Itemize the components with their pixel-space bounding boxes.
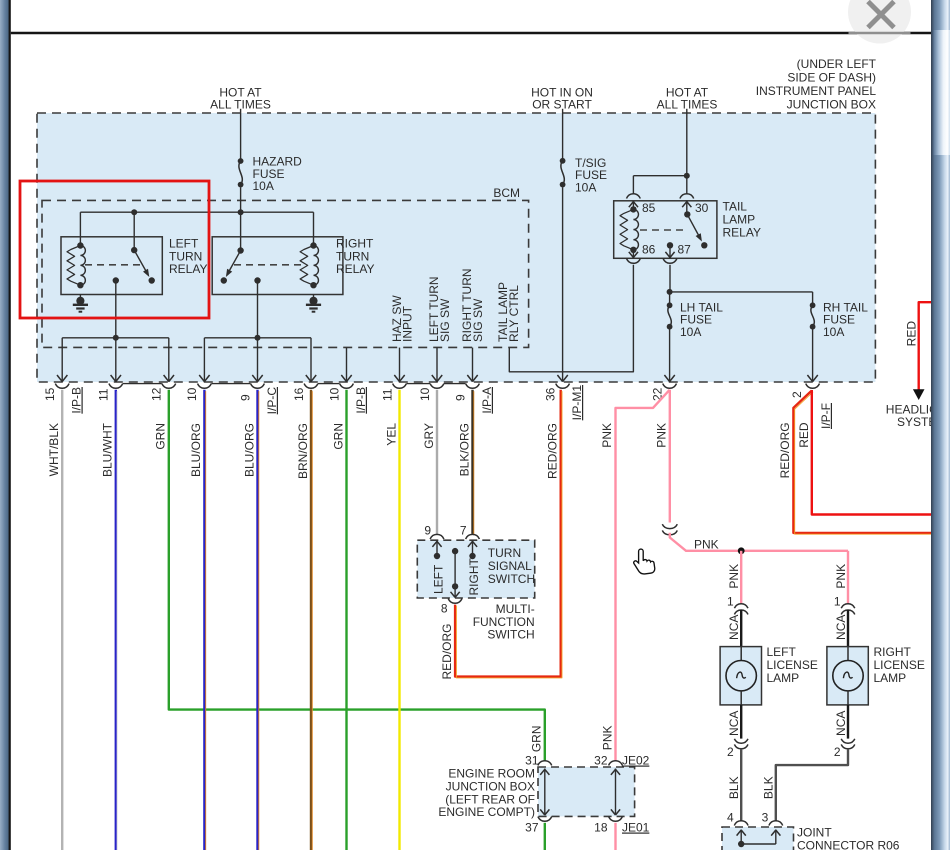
connector pin1 left lamp bbox=[734, 604, 748, 615]
svg-text:BLU/ORG: BLU/ORG bbox=[189, 423, 203, 477]
label 18 bbox=[594, 821, 608, 835]
mouse hand cursor bbox=[634, 549, 655, 574]
wire NCA left lamp pin2 bbox=[740, 705, 742, 739]
label NCA lower right (rotated) bbox=[834, 711, 848, 736]
svg-text:PNK: PNK bbox=[834, 564, 848, 589]
wire GRN pin10 bbox=[345, 390, 347, 850]
label I/P-F (pin2) bbox=[819, 403, 833, 429]
svg-text:NCA: NCA bbox=[727, 615, 741, 640]
wire LH fuse to pin22 bbox=[664, 330, 674, 382]
label I/P-M1 (pin36) bbox=[570, 385, 584, 421]
label 85 bbox=[642, 201, 656, 215]
svg-text:SIGNAL: SIGNAL bbox=[488, 559, 532, 573]
svg-text:RELAY: RELAY bbox=[723, 225, 761, 239]
relay K1 mechanical link (dashed) bbox=[85, 264, 141, 266]
svg-text:TAIL: TAIL bbox=[723, 199, 748, 213]
JOINT CONNECTOR R06 dashed box bbox=[722, 827, 794, 850]
svg-text:SWITCH: SWITCH bbox=[487, 628, 534, 642]
label 9 bbox=[424, 523, 431, 537]
wire tsig feed bbox=[562, 109, 564, 159]
svg-text:87: 87 bbox=[678, 243, 692, 257]
svg-text:PNK: PNK bbox=[694, 538, 719, 552]
relay K2 RIGHT TURN RELAY box bbox=[212, 237, 343, 295]
svg-text:9: 9 bbox=[424, 523, 431, 537]
svg-text:9: 9 bbox=[453, 394, 467, 401]
svg-text:1: 1 bbox=[834, 594, 841, 608]
svg-text:RED/ORG: RED/ORG bbox=[440, 624, 454, 680]
wire BLK right lamp to joint pin3 bbox=[776, 749, 848, 821]
svg-text:3: 3 bbox=[762, 811, 769, 825]
wire right output bus bbox=[204, 337, 311, 339]
wire tail feed bar bbox=[633, 175, 686, 177]
label TURN SIGNAL SWITCH bbox=[488, 546, 535, 586]
TSS pin9 arrow bbox=[432, 541, 441, 560]
JE pin31-37 through wire bbox=[540, 769, 549, 816]
label LH TAIL FUSE 10A bbox=[680, 300, 723, 339]
connector cup JE01 pin18 bbox=[609, 817, 623, 822]
label LEFT TURN SIG SW (rotated) bbox=[427, 276, 452, 342]
label RED (rotated) bbox=[797, 422, 811, 448]
label 86 bbox=[642, 243, 656, 257]
connector cap JE02 pin31 bbox=[538, 761, 552, 766]
relay K1 switch arm bbox=[131, 247, 155, 284]
label RED (headlight, rotated) bbox=[904, 321, 918, 347]
close button circle bbox=[848, 0, 911, 44]
TSS pin7 arrow bbox=[468, 541, 477, 560]
svg-text:BLU/ORG: BLU/ORG bbox=[242, 423, 256, 477]
label PNK pin1 right (rotated) bbox=[834, 564, 848, 589]
svg-text:PNK: PNK bbox=[600, 726, 614, 751]
wire bus drop pin15 bbox=[57, 338, 67, 382]
wire PNK pin22 branch to JE02 pin32 bbox=[616, 390, 670, 761]
wire PNK to lamp junction bbox=[670, 533, 848, 551]
svg-text:SWITCH: SWITCH bbox=[488, 572, 535, 586]
label BLK right (rotated) bbox=[762, 776, 776, 799]
connector pin2 right lamp bbox=[841, 739, 855, 749]
svg-text:12: 12 bbox=[150, 387, 164, 401]
wire bus drop pin11 bbox=[111, 338, 121, 382]
wire BLU/ORG pin9 bbox=[258, 390, 259, 850]
relay K2 coil bbox=[300, 242, 318, 288]
svg-text:RED/ORG: RED/ORG bbox=[778, 422, 792, 478]
inline connector on PNK wire bbox=[662, 524, 677, 535]
label T/SIG FUSE 10A bbox=[575, 156, 607, 195]
svg-text:RIGHT: RIGHT bbox=[874, 645, 912, 659]
relay K2 mechanical link (dashed) bbox=[234, 264, 306, 266]
right scrollbar thumb bbox=[934, 30, 950, 155]
label JE02 bbox=[622, 754, 650, 768]
lamp RIGHT bulb symbol bbox=[833, 647, 863, 705]
svg-text:JOINT: JOINT bbox=[797, 826, 832, 840]
svg-text:18: 18 bbox=[594, 821, 608, 835]
label 7 bbox=[460, 523, 467, 537]
label PNK (rotated) bbox=[655, 423, 669, 448]
svg-text:2: 2 bbox=[727, 745, 734, 759]
label LEFT TURN RELAY bbox=[169, 236, 207, 276]
wire relay supply bus bbox=[80, 211, 313, 213]
label RED/ORG (rotated) bbox=[778, 422, 792, 478]
svg-text:SIG SW: SIG SW bbox=[438, 298, 452, 342]
wire bus drop pin16 bbox=[306, 338, 316, 382]
wire bus drop pin9 bbox=[252, 338, 262, 382]
label I/P-A (pin9 blkorg) bbox=[480, 387, 494, 414]
wire WHT/BLK pin15 bbox=[61, 390, 63, 850]
label LEFT LICENSE LAMP bbox=[767, 645, 818, 685]
label GRN (rotated, JE02) bbox=[530, 726, 544, 753]
switch S1 TURN SIGNAL SWITCH box bbox=[417, 540, 534, 598]
BCM dashed box bbox=[42, 200, 529, 347]
svg-text:LICENSE: LICENSE bbox=[874, 658, 925, 672]
node bus-left-switch junction bbox=[131, 209, 137, 215]
wire NCA right lamp pin1 bbox=[847, 610, 849, 647]
label 37 bbox=[525, 821, 539, 835]
ENGINE ROOM JUNCTION BOX dashed box bbox=[538, 767, 635, 816]
svg-text:RELAY: RELAY bbox=[169, 262, 207, 276]
relay K2 switch arm bbox=[221, 247, 244, 283]
label 30 bbox=[695, 201, 709, 215]
right scrollbar gradient strip bbox=[931, 0, 950, 850]
relay K1 coil bbox=[67, 242, 85, 288]
svg-text:PNK: PNK bbox=[600, 423, 614, 448]
svg-text:30: 30 bbox=[695, 201, 709, 215]
label I/P-B (pin15) bbox=[70, 387, 84, 414]
svg-text:I/P-F: I/P-F bbox=[819, 403, 833, 429]
wire bus to right relay coil bbox=[313, 212, 315, 245]
svg-text:RELAY: RELAY bbox=[336, 262, 374, 276]
label PNK pin1 left (rotated) bbox=[727, 564, 741, 589]
wire RED/ORG from pin2 bbox=[793, 391, 932, 535]
fuse T/SIG FUSE 10A bbox=[560, 158, 566, 188]
svg-text:INSTRUMENT PANEL: INSTRUMENT PANEL bbox=[756, 84, 877, 98]
svg-text:WHT/BLK: WHT/BLK bbox=[47, 423, 61, 476]
wire bus drop pin12 bbox=[164, 338, 174, 382]
label GRN (rotated) bbox=[331, 423, 345, 450]
connector pin2 left lamp bbox=[734, 739, 748, 749]
svg-text:LAMP: LAMP bbox=[874, 671, 907, 685]
wire K1 common down bbox=[115, 281, 117, 338]
node bus-hazard junction bbox=[238, 209, 244, 215]
svg-text:LICENSE: LICENSE bbox=[767, 658, 818, 672]
svg-text:TURN: TURN bbox=[336, 249, 369, 263]
wire NCA right lamp pin2 bbox=[847, 705, 849, 739]
svg-text:31: 31 bbox=[525, 754, 539, 768]
svg-text:2: 2 bbox=[790, 391, 804, 398]
svg-text:RLY CTRL: RLY CTRL bbox=[507, 285, 521, 342]
label GRY (rotated) bbox=[422, 423, 436, 449]
svg-text:11: 11 bbox=[380, 388, 394, 401]
label JE01 bbox=[622, 821, 650, 835]
label NCA upper left (rotated) bbox=[727, 615, 741, 640]
wire RED/ORG pin36 to TSS pin8 bbox=[455, 390, 562, 678]
label I/P-B (pin10 grn) bbox=[354, 387, 368, 414]
svg-text:NCA: NCA bbox=[834, 615, 848, 640]
close button X bbox=[868, 2, 894, 28]
left window gradient strip bbox=[0, 0, 9, 850]
label PNK (horizontal) bbox=[694, 538, 719, 552]
svg-text:36: 36 bbox=[543, 387, 557, 401]
label BCM bbox=[493, 186, 520, 200]
wire BRN/ORG pin16 bbox=[311, 390, 312, 850]
svg-text:ENGINE ROOM: ENGINE ROOM bbox=[448, 767, 535, 781]
TSS common lever bbox=[451, 548, 460, 598]
svg-text:LAMP: LAMP bbox=[723, 212, 756, 226]
connector pin1 right lamp bbox=[841, 604, 855, 615]
label MULTI-FUNCTION SWITCH bbox=[473, 602, 535, 642]
connector cap joint pin3 bbox=[769, 821, 783, 826]
wire NCA left lamp pin1 bbox=[740, 610, 742, 647]
svg-text:NCA: NCA bbox=[834, 711, 848, 736]
label HEADLIGHT SYSTEM bbox=[886, 403, 950, 429]
svg-text:10A: 10A bbox=[680, 325, 701, 339]
wire PNK to right lamp pin1 bbox=[847, 551, 849, 604]
wire BCM pin10 GRN drop bbox=[341, 348, 351, 382]
label RH TAIL FUSE 10A bbox=[823, 300, 868, 339]
svg-text:JE01: JE01 bbox=[622, 821, 650, 835]
svg-text:GRN: GRN bbox=[154, 423, 168, 450]
label LEFT (rotated) bbox=[432, 564, 446, 594]
ground for K1 coil bbox=[73, 295, 88, 312]
svg-text:SIDE OF DASH): SIDE OF DASH) bbox=[787, 71, 876, 85]
connector cap JE02 pin32 bbox=[609, 761, 623, 766]
svg-text:RED/ORG: RED/ORG bbox=[546, 423, 560, 479]
svg-text:10: 10 bbox=[327, 387, 341, 401]
svg-text:I/P-C: I/P-C bbox=[265, 387, 279, 415]
label NCA upper right (rotated) bbox=[834, 615, 848, 640]
wire GRN JE01 pin37 down bbox=[544, 823, 546, 850]
wire PNK JE01 pin18 down bbox=[614, 823, 616, 850]
wire bar to pin30 bbox=[686, 176, 688, 194]
wire bus to left relay coil bbox=[79, 212, 81, 245]
label 4 bbox=[727, 811, 734, 825]
connector cap TSS pin7 bbox=[466, 534, 480, 539]
svg-text:32: 32 bbox=[594, 754, 608, 768]
wire BLK left lamp to joint pin4 bbox=[740, 749, 742, 821]
wire BLK/ORG pin9 to TSS pin7 bbox=[473, 390, 474, 535]
pin86 arrow bbox=[629, 250, 638, 258]
svg-text:10: 10 bbox=[185, 387, 199, 401]
label PNK (rotated, JE02) bbox=[600, 726, 614, 751]
connector cup JE01 pin37 bbox=[538, 817, 552, 822]
svg-text:GRN: GRN bbox=[331, 423, 345, 450]
svg-text:8: 8 bbox=[441, 601, 448, 615]
svg-text:NCA: NCA bbox=[727, 711, 741, 736]
wire to RH fuse bbox=[812, 292, 814, 303]
relay K3 TAIL LAMP RELAY box bbox=[614, 201, 717, 258]
label (UNDER LEFT SIDE OF DASH) INSTRUMENT PANEL JUNCTION BOX bbox=[756, 57, 877, 112]
label 1 (right lamp) bbox=[834, 594, 841, 608]
wire pin87 down bbox=[669, 265, 671, 292]
svg-text:10: 10 bbox=[418, 387, 432, 401]
joint internal bus bbox=[737, 830, 781, 848]
svg-text:86: 86 bbox=[642, 243, 656, 257]
svg-text:YEL: YEL bbox=[384, 423, 398, 446]
svg-text:11: 11 bbox=[97, 388, 111, 401]
svg-text:INPUT: INPUT bbox=[400, 305, 414, 342]
connector cap TSS pin9 bbox=[430, 534, 444, 539]
node right bus junction bbox=[255, 335, 261, 341]
wire bus to right relay switch bbox=[240, 212, 242, 250]
svg-text:I/P-B: I/P-B bbox=[354, 387, 368, 414]
svg-text:1: 1 bbox=[727, 594, 734, 608]
label RIGHT TURN SIG SW (rotated) bbox=[460, 268, 485, 342]
label WHT/BLK (rotated) bbox=[47, 423, 61, 476]
relay K3 coil bbox=[620, 206, 638, 253]
label RIGHT TURN RELAY bbox=[336, 236, 374, 276]
label 1 (left lamp) bbox=[727, 594, 734, 608]
label TAIL LAMP RLY CTRL (rotated) bbox=[496, 282, 521, 342]
label 2 (right lamp) bbox=[834, 745, 841, 759]
svg-text:PNK: PNK bbox=[727, 564, 741, 589]
connector cup TSS pin8 bbox=[448, 599, 462, 604]
relay K1 LEFT TURN RELAY box bbox=[61, 237, 162, 295]
label 2 (left lamp) bbox=[727, 745, 734, 759]
svg-text:2: 2 bbox=[834, 745, 841, 759]
lamp LEFT bulb symbol bbox=[726, 647, 756, 705]
svg-text:LEFT: LEFT bbox=[767, 645, 797, 659]
pin87 arrow bbox=[665, 245, 674, 258]
wire GRY pin10 to TSS pin9 bbox=[436, 390, 438, 534]
wire PNK pin22 branch to license lamps bbox=[669, 390, 671, 523]
wire fuse bar bbox=[670, 291, 813, 293]
lamp LEFT LICENSE LAMP box bbox=[720, 647, 761, 705]
wire RED to headlight system bbox=[913, 302, 931, 400]
ground for K2 coil bbox=[306, 295, 321, 312]
svg-text:RIGHT: RIGHT bbox=[467, 558, 481, 596]
svg-text:BLK: BLK bbox=[727, 776, 741, 799]
svg-text:37: 37 bbox=[525, 821, 539, 835]
label PNK (rotated) bbox=[600, 423, 614, 448]
svg-text:TURN: TURN bbox=[169, 249, 202, 263]
svg-text:15: 15 bbox=[43, 387, 57, 401]
svg-text:10A: 10A bbox=[823, 325, 844, 339]
wire YEL pin11 bbox=[398, 390, 400, 850]
wire tsig fuse to pin36 bbox=[557, 188, 567, 382]
node tail fuse split bbox=[667, 289, 673, 295]
close button gray line overlap bbox=[849, 32, 911, 34]
label HAZARD FUSE 10A bbox=[253, 155, 303, 194]
connector cap joint pin4 bbox=[734, 821, 748, 826]
label 31 bbox=[525, 754, 539, 768]
label BLU/ORG (rotated) bbox=[242, 423, 256, 477]
connector body links bbox=[123, 383, 466, 385]
connector cap pin30 bbox=[680, 194, 694, 199]
label BLK left (rotated) bbox=[727, 776, 741, 799]
instrument panel junction box (dashed blue box) bbox=[37, 113, 875, 382]
svg-text:10A: 10A bbox=[575, 180, 596, 194]
label BRN/ORG (rotated) bbox=[296, 423, 310, 479]
node tail feed junction bbox=[684, 173, 690, 179]
svg-text:ENGINE COMPT): ENGINE COMPT) bbox=[438, 805, 535, 819]
svg-text:7: 7 bbox=[460, 523, 467, 537]
wire BCM pin9 RT drop bbox=[467, 348, 477, 382]
svg-text:SIG SW: SIG SW bbox=[471, 298, 485, 342]
fuse RH TAIL FUSE 10A bbox=[810, 302, 816, 329]
connector cup pin87 bbox=[663, 259, 677, 264]
wire GRN pin12 to JE02 pin31 bbox=[169, 390, 545, 761]
svg-text:LAMP: LAMP bbox=[767, 671, 800, 685]
svg-text:BLK/ORG: BLK/ORG bbox=[457, 423, 471, 476]
svg-text:LEFT: LEFT bbox=[432, 564, 446, 594]
fuse LH TAIL FUSE 10A bbox=[667, 302, 673, 329]
label JOINT CONNECTOR R06 bbox=[797, 826, 900, 850]
wire bus to left relay switch bbox=[133, 212, 135, 250]
fuse HAZARD FUSE 10A bbox=[238, 158, 244, 187]
svg-text:16: 16 bbox=[292, 387, 306, 401]
connector cups at junction box exits bbox=[55, 384, 819, 389]
svg-text:RED: RED bbox=[904, 321, 918, 347]
node left bus junction bbox=[113, 335, 119, 341]
svg-text:GRN: GRN bbox=[530, 726, 544, 753]
svg-text:I/P-A: I/P-A bbox=[480, 387, 494, 414]
pin30 arrow bbox=[682, 201, 691, 215]
wire tail relay feed bbox=[686, 109, 688, 176]
svg-text:4: 4 bbox=[727, 811, 734, 825]
svg-text:JUNCTION BOX: JUNCTION BOX bbox=[446, 779, 535, 793]
svg-text:I/P-M1: I/P-M1 bbox=[570, 385, 584, 421]
label HOT AT ALL TIMES (right) bbox=[657, 86, 718, 112]
label HOT AT ALL TIMES (left) bbox=[210, 86, 271, 112]
pin85 arrow bbox=[629, 201, 638, 210]
relay K1 common terminal bbox=[113, 277, 119, 283]
wire RH fuse to pin2 bbox=[807, 330, 817, 382]
label 87 bbox=[678, 243, 692, 257]
label GRN (rotated) bbox=[154, 423, 168, 450]
svg-text:10A: 10A bbox=[253, 179, 274, 193]
wire PNK to left lamp pin1 bbox=[740, 551, 742, 604]
wire left output bus bbox=[62, 337, 169, 339]
red highlight box around LEFT TURN RELAY bbox=[20, 181, 209, 318]
label ENGINE ROOM JUNCTION BOX (LEFT REAR OF ENGINE COMPT) bbox=[438, 767, 535, 820]
svg-text:(UNDER LEFT: (UNDER LEFT bbox=[797, 57, 877, 71]
label 32 bbox=[594, 754, 608, 768]
wire BLU/ORG pin10 bbox=[204, 390, 205, 850]
label I/P-C (pin9) bbox=[265, 387, 279, 415]
wire BCM pin11 HAZ drop bbox=[394, 348, 404, 382]
svg-text:BRN/ORG: BRN/ORG bbox=[296, 423, 310, 479]
left frame border line bbox=[9, 0, 11, 850]
label BLU/ORG (rotated) bbox=[189, 423, 203, 477]
svg-text:RED: RED bbox=[797, 422, 811, 448]
wire to LH fuse bbox=[669, 292, 671, 303]
wire bar to pin85 bbox=[632, 176, 634, 194]
svg-text:BLU/WHT: BLU/WHT bbox=[101, 422, 115, 477]
svg-text:85: 85 bbox=[642, 201, 656, 215]
lamp RIGHT LICENSE LAMP box bbox=[827, 647, 868, 705]
wire K2 common down bbox=[257, 281, 259, 338]
wire pin86 to BCM tail lamp rly ctrl bbox=[509, 265, 633, 372]
label RED/ORG (TSS pin8, rotated) bbox=[440, 624, 454, 680]
connector cap pin85 bbox=[627, 194, 641, 199]
svg-text:PNK: PNK bbox=[655, 423, 669, 448]
label HAZ SW INPUT (rotated) bbox=[390, 295, 415, 342]
label YEL (rotated) bbox=[384, 423, 398, 446]
wire BCM pin10 LT drop bbox=[432, 348, 442, 382]
svg-text:CONNECTOR R06: CONNECTOR R06 bbox=[797, 839, 900, 850]
svg-text:9: 9 bbox=[238, 394, 252, 401]
wire BLU/WHT pin11 bbox=[116, 390, 117, 850]
label RIGHT (rotated) bbox=[467, 558, 481, 596]
wire hazard feed bbox=[240, 109, 242, 159]
node PNK lamp split bbox=[738, 547, 745, 554]
label BLU/WHT (rotated) bbox=[101, 422, 115, 477]
top frame border line bbox=[11, 32, 931, 34]
svg-text:TURN: TURN bbox=[488, 546, 521, 560]
relay K3 switch arm bbox=[684, 211, 707, 248]
label RIGHT LICENSE LAMP bbox=[874, 645, 925, 685]
wire hazard fuse to bus bbox=[240, 188, 242, 213]
label HOT IN ON OR START bbox=[531, 86, 593, 112]
svg-text:I/P-B: I/P-B bbox=[70, 387, 84, 414]
